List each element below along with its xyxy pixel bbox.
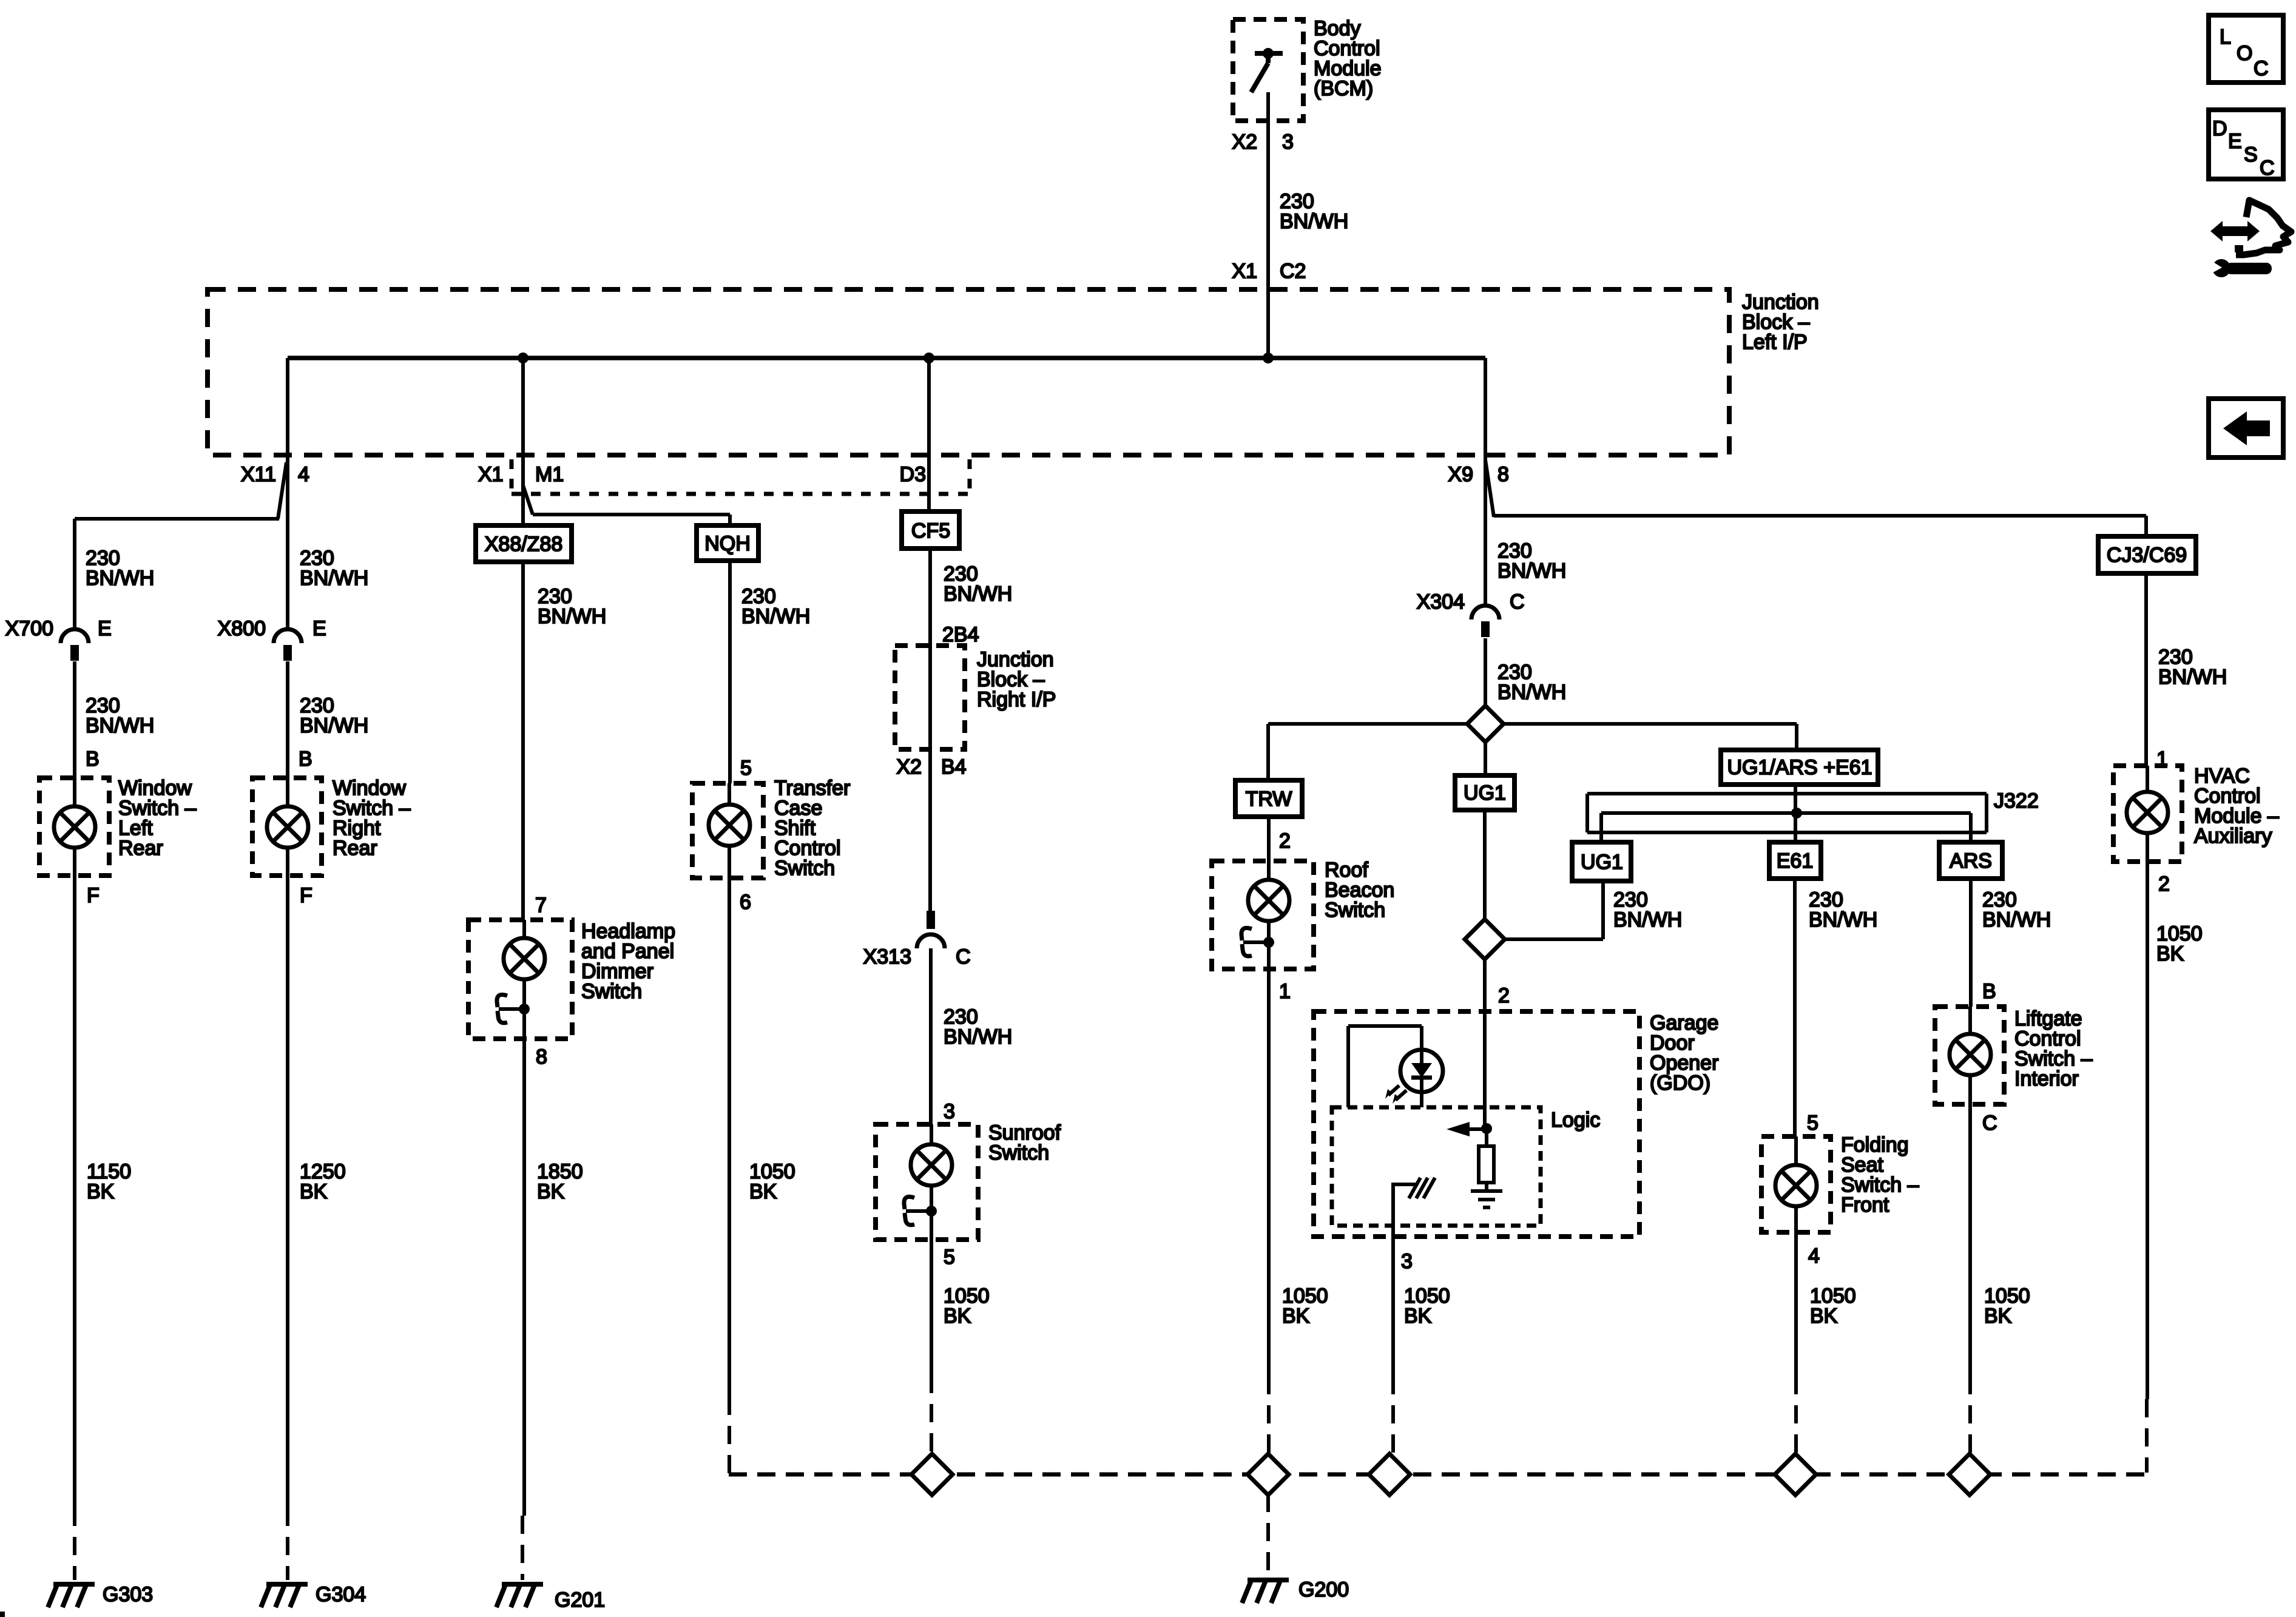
svg-text:2: 2 xyxy=(2158,873,2170,896)
svg-text:1: 1 xyxy=(1279,980,1291,1003)
svg-text:BN/WH: BN/WH xyxy=(1497,681,1566,704)
svg-text:BN/WH: BN/WH xyxy=(300,714,368,737)
svg-text:BK: BK xyxy=(2156,942,2184,965)
svg-text:X1: X1 xyxy=(1232,260,1257,283)
svg-text:Switch: Switch xyxy=(1325,899,1385,922)
svg-text:Logic: Logic xyxy=(1551,1109,1600,1132)
svg-text:BN/WH: BN/WH xyxy=(741,605,810,628)
svg-text:1: 1 xyxy=(2156,748,2168,771)
svg-text:BN/WH: BN/WH xyxy=(2158,666,2227,689)
svg-text:X313: X313 xyxy=(863,945,911,968)
svg-text:8: 8 xyxy=(1497,463,1509,486)
svg-text:BK: BK xyxy=(1984,1305,2012,1328)
svg-text:B4: B4 xyxy=(941,755,967,778)
svg-text:Left I/P: Left I/P xyxy=(1742,331,1808,354)
svg-text:5: 5 xyxy=(944,1246,955,1269)
svg-text:Switch: Switch xyxy=(988,1141,1049,1164)
svg-text:X2: X2 xyxy=(896,755,922,778)
svg-text:Auxiliary: Auxiliary xyxy=(2194,825,2272,848)
svg-text:UG1: UG1 xyxy=(1581,851,1623,874)
svg-text:M1: M1 xyxy=(535,463,564,486)
svg-text:BN/WH: BN/WH xyxy=(944,582,1012,606)
svg-text:C: C xyxy=(1982,1112,1997,1135)
svg-text:C: C xyxy=(1510,590,1525,613)
svg-text:CJ3/C69: CJ3/C69 xyxy=(2107,544,2187,567)
svg-text:2: 2 xyxy=(1279,829,1291,852)
svg-text:D: D xyxy=(2212,117,2227,140)
svg-text:Rear: Rear xyxy=(118,837,163,860)
svg-text:CF5: CF5 xyxy=(911,519,950,542)
svg-text:E61: E61 xyxy=(1777,849,1814,873)
svg-text:Rear: Rear xyxy=(333,837,377,860)
svg-text:BN/WH: BN/WH xyxy=(1613,908,1682,931)
svg-text:4: 4 xyxy=(298,463,309,486)
svg-text:5: 5 xyxy=(1807,1112,1818,1135)
svg-text:C: C xyxy=(2254,57,2269,80)
svg-text:E: E xyxy=(98,617,112,640)
svg-text:(BCM): (BCM) xyxy=(1314,77,1373,100)
svg-text:X11: X11 xyxy=(241,463,276,486)
svg-text:6: 6 xyxy=(740,891,751,914)
svg-text:3: 3 xyxy=(944,1100,955,1123)
svg-text:E: E xyxy=(312,617,326,640)
svg-text:BN/WH: BN/WH xyxy=(86,714,154,737)
svg-text:4: 4 xyxy=(1808,1244,1820,1268)
svg-text:3: 3 xyxy=(1401,1250,1413,1273)
svg-text:UG1: UG1 xyxy=(1464,781,1506,805)
svg-text:BK: BK xyxy=(749,1180,777,1203)
svg-text:X2: X2 xyxy=(1232,130,1257,154)
svg-text:E: E xyxy=(2228,130,2242,153)
svg-text:B: B xyxy=(1982,980,1996,1003)
svg-text:C: C xyxy=(2260,157,2275,180)
svg-text:G303: G303 xyxy=(103,1583,153,1606)
svg-text:BK: BK xyxy=(300,1180,328,1203)
svg-text:BN/WH: BN/WH xyxy=(1280,210,1348,233)
svg-text:C2: C2 xyxy=(1280,260,1306,283)
svg-text:8: 8 xyxy=(536,1045,547,1068)
svg-text:BK: BK xyxy=(1282,1305,1310,1328)
svg-text:BN/WH: BN/WH xyxy=(1982,908,2051,931)
svg-text:2: 2 xyxy=(1498,984,1510,1007)
svg-text:Switch: Switch xyxy=(774,857,835,880)
svg-text:B: B xyxy=(86,748,100,771)
svg-text:F: F xyxy=(300,884,312,907)
svg-text:BN/WH: BN/WH xyxy=(86,567,154,590)
svg-text:BN/WH: BN/WH xyxy=(538,605,606,628)
svg-text:7: 7 xyxy=(535,894,547,917)
svg-text:G200: G200 xyxy=(1298,1578,1349,1601)
svg-text:5: 5 xyxy=(740,757,752,780)
svg-text:BK: BK xyxy=(87,1180,115,1203)
svg-text:UG1/ARS +E61: UG1/ARS +E61 xyxy=(1727,756,1872,779)
svg-text:BN/WH: BN/WH xyxy=(300,567,368,590)
svg-text:L: L xyxy=(2220,25,2231,49)
svg-text:BN/WH: BN/WH xyxy=(944,1025,1012,1048)
svg-text:O: O xyxy=(2237,42,2252,65)
svg-text:X88/Z88: X88/Z88 xyxy=(485,533,563,556)
svg-text:G304: G304 xyxy=(316,1583,366,1606)
svg-text:D3: D3 xyxy=(900,463,926,486)
svg-text:3: 3 xyxy=(1282,130,1294,154)
svg-text:ARS: ARS xyxy=(1950,849,1992,873)
svg-text:X9: X9 xyxy=(1448,463,1473,486)
svg-text:B: B xyxy=(299,748,312,771)
svg-text:NQH: NQH xyxy=(704,532,751,555)
svg-text:J322: J322 xyxy=(1994,789,2039,812)
svg-text:BK: BK xyxy=(944,1305,971,1328)
svg-text:BN/WH: BN/WH xyxy=(1497,559,1566,582)
svg-text:2B4: 2B4 xyxy=(942,623,979,646)
svg-text:BN/WH: BN/WH xyxy=(1809,908,1877,931)
svg-text:Switch: Switch xyxy=(581,980,642,1003)
svg-text:C: C xyxy=(956,945,971,968)
svg-text:S: S xyxy=(2244,143,2258,166)
svg-text:X1: X1 xyxy=(478,463,504,486)
svg-text:BK: BK xyxy=(1810,1305,1838,1328)
svg-text:G201: G201 xyxy=(555,1588,605,1612)
svg-text:X304: X304 xyxy=(1417,590,1465,613)
svg-text:Front: Front xyxy=(1841,1193,1889,1217)
svg-text:(GDO): (GDO) xyxy=(1650,1072,1710,1095)
svg-text:X700: X700 xyxy=(5,617,53,640)
svg-text:Interior: Interior xyxy=(2014,1067,2079,1090)
svg-text:Right I/P: Right I/P xyxy=(977,688,1056,711)
svg-text:F: F xyxy=(87,884,100,907)
svg-text:TRW: TRW xyxy=(1246,788,1292,811)
svg-text:BK: BK xyxy=(537,1180,565,1203)
svg-text:BK: BK xyxy=(1404,1305,1432,1328)
svg-text:X800: X800 xyxy=(218,617,266,640)
